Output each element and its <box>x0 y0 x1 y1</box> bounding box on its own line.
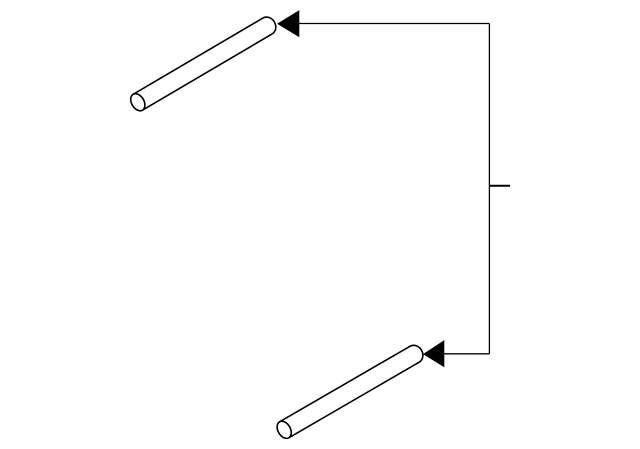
leader line top (horizontal) <box>298 23 489 25</box>
arrowhead top <box>277 10 299 37</box>
leader line bottom (horizontal) <box>444 353 489 355</box>
pin (bottom dowel rod) <box>274 342 426 441</box>
pin (top dowel rod) <box>128 14 279 113</box>
leader line vertical <box>488 24 490 354</box>
arrowhead bottom <box>423 340 444 367</box>
tick mark on vertical line <box>489 185 510 187</box>
